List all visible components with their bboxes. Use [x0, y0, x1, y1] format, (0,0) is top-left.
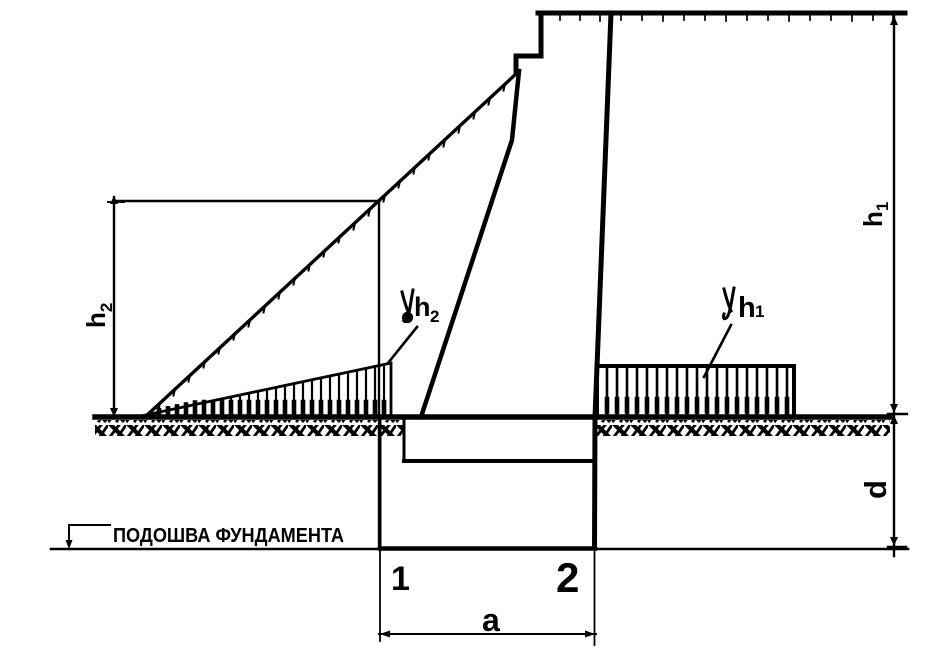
svg-text:1: 1	[755, 302, 764, 321]
svg-text:а: а	[482, 602, 500, 638]
svg-text:1: 1	[391, 560, 410, 598]
svg-text:2: 2	[556, 554, 579, 601]
svg-text:h: h	[738, 292, 756, 324]
svg-text:h1: h1	[858, 202, 892, 227]
svg-text:h: h	[414, 292, 431, 322]
svg-text:2: 2	[430, 307, 439, 326]
svg-text:h2: h2	[81, 303, 116, 328]
svg-text:ПОДОШВА ФУНДАМЕНТА: ПОДОШВА ФУНДАМЕНТА	[113, 525, 344, 547]
svg-text:d: d	[858, 480, 893, 499]
